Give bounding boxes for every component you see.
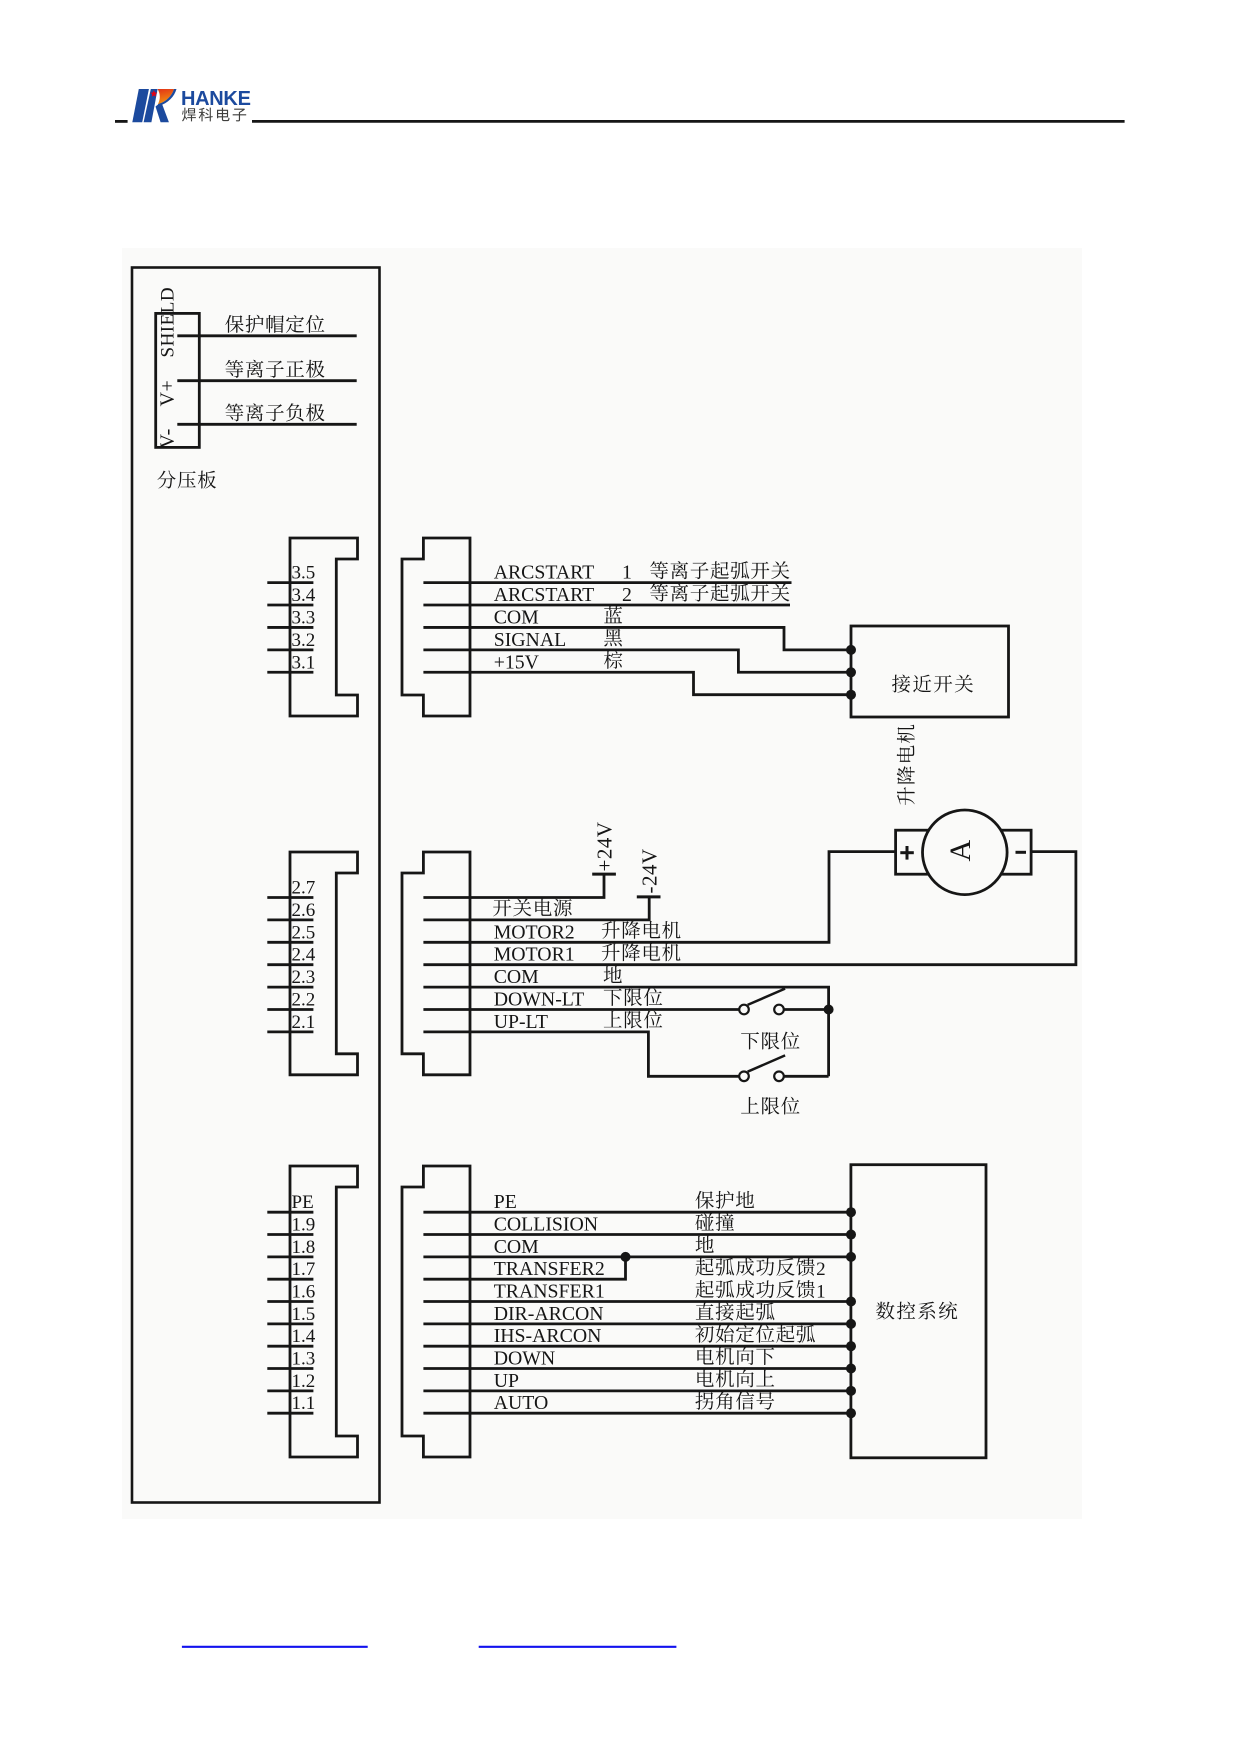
svg-text:2.3: 2.3 bbox=[292, 967, 316, 988]
svg-text:+24V: +24V bbox=[593, 821, 617, 871]
svg-text:1: 1 bbox=[622, 562, 632, 584]
svg-text:DOWN: DOWN bbox=[494, 1348, 556, 1370]
svg-text:1.2: 1.2 bbox=[292, 1371, 316, 1392]
svg-text:3.5: 3.5 bbox=[292, 563, 316, 584]
svg-text:2.2: 2.2 bbox=[292, 990, 316, 1011]
svg-text:COM: COM bbox=[494, 606, 539, 628]
svg-text:2: 2 bbox=[622, 584, 632, 606]
svg-text:PE: PE bbox=[292, 1192, 314, 1213]
svg-text:2.7: 2.7 bbox=[292, 878, 316, 899]
svg-text:2.6: 2.6 bbox=[292, 900, 316, 921]
svg-text:3.4: 3.4 bbox=[292, 585, 316, 606]
svg-text:A: A bbox=[944, 840, 977, 862]
svg-text:HANKE: HANKE bbox=[181, 88, 251, 110]
svg-text:2.5: 2.5 bbox=[292, 922, 316, 943]
svg-text:TRANSFER1: TRANSFER1 bbox=[494, 1281, 605, 1303]
svg-text:AUTO: AUTO bbox=[494, 1392, 549, 1414]
svg-text:COM: COM bbox=[494, 966, 539, 988]
svg-text:DIR-ARCON: DIR-ARCON bbox=[494, 1303, 604, 1325]
svg-text:ARCSTART: ARCSTART bbox=[494, 562, 595, 584]
svg-text:3.3: 3.3 bbox=[292, 607, 316, 628]
svg-text:3.1: 3.1 bbox=[292, 652, 316, 673]
svg-text:1.1: 1.1 bbox=[292, 1393, 316, 1414]
svg-text:2.4: 2.4 bbox=[292, 945, 316, 966]
svg-text:COM: COM bbox=[494, 1236, 539, 1258]
svg-text:1.3: 1.3 bbox=[292, 1349, 316, 1370]
svg-text:1.8: 1.8 bbox=[292, 1237, 316, 1258]
svg-text:2: 2 bbox=[816, 1259, 826, 1280]
svg-text:3.2: 3.2 bbox=[292, 630, 316, 651]
svg-text:COLLISION: COLLISION bbox=[494, 1214, 598, 1236]
svg-text:1.9: 1.9 bbox=[292, 1215, 316, 1236]
svg-text:2.1: 2.1 bbox=[292, 1012, 316, 1033]
svg-text:UP-LT: UP-LT bbox=[494, 1011, 548, 1033]
svg-text:TRANSFER2: TRANSFER2 bbox=[494, 1258, 605, 1280]
svg-text:1.5: 1.5 bbox=[292, 1304, 316, 1325]
svg-text:DOWN-LT: DOWN-LT bbox=[494, 989, 584, 1011]
svg-text:1.6: 1.6 bbox=[292, 1282, 316, 1303]
svg-text:1.7: 1.7 bbox=[292, 1259, 316, 1280]
svg-text:MOTOR1: MOTOR1 bbox=[494, 944, 575, 966]
svg-text:PE: PE bbox=[494, 1191, 517, 1213]
svg-text:+15V: +15V bbox=[494, 651, 540, 673]
svg-text:SHIELD: SHIELD bbox=[158, 287, 179, 358]
svg-text:1: 1 bbox=[816, 1282, 826, 1303]
svg-text:SIGNAL: SIGNAL bbox=[494, 629, 567, 651]
svg-text:MOTOR2: MOTOR2 bbox=[494, 921, 575, 943]
svg-text:V-: V- bbox=[157, 428, 179, 448]
svg-text:V+: V+ bbox=[157, 380, 179, 407]
svg-text:IHS-ARCON: IHS-ARCON bbox=[494, 1325, 602, 1347]
svg-text:UP: UP bbox=[494, 1370, 519, 1392]
svg-text:1.4: 1.4 bbox=[292, 1326, 316, 1347]
svg-text:ARCSTART: ARCSTART bbox=[494, 584, 595, 606]
svg-text:-24V: -24V bbox=[638, 848, 662, 893]
